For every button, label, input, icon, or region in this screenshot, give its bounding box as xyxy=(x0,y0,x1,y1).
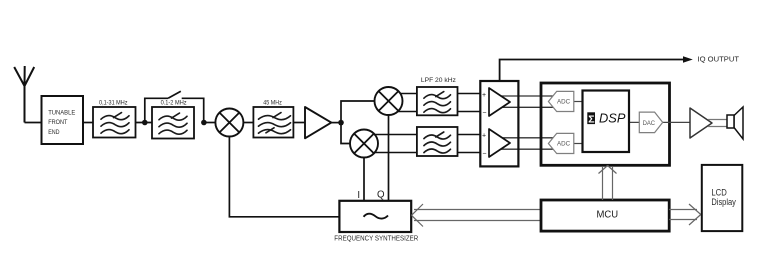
node branch junction dot xyxy=(338,120,344,126)
svg-text:Display: Display xyxy=(711,197,736,207)
svg-text:IQ OUTPUT: IQ OUTPUT xyxy=(698,55,740,64)
bypass switch SW1 wire xyxy=(145,91,204,122)
wire FL1 to FL2 xyxy=(136,122,153,124)
bus MCU to LCD xyxy=(669,204,701,225)
wire FL2 to mixer M1 xyxy=(204,122,216,124)
wire amp outputs to ADC1 xyxy=(495,96,556,107)
svg-text:−: − xyxy=(482,151,486,158)
audio amp A2 xyxy=(690,108,712,138)
speaker LS1 xyxy=(727,107,743,139)
LCD display block xyxy=(702,165,743,231)
svg-text:LPF 20 kHz: LPF 20 kHz xyxy=(421,77,457,84)
MCU block xyxy=(541,200,669,231)
bandpass filter FL1 0,1-31 MHz xyxy=(93,107,136,138)
wire DSP to DAC and audio amp xyxy=(629,121,690,123)
mixer M3 xyxy=(350,130,378,158)
bus MCU to SDR chip xyxy=(599,166,617,201)
wire antenna to tunable front end xyxy=(25,122,42,124)
bandpass filter FL2 0.1-2 MHz xyxy=(152,107,194,139)
wire IQ OUTPUT line xyxy=(500,60,683,82)
svg-text:ADC: ADC xyxy=(557,141,571,148)
wire ADC2 to DSP xyxy=(574,143,583,145)
op-amp U2 xyxy=(489,129,510,157)
wire mixer M1 LO from synthesizer xyxy=(229,137,339,217)
svg-text:END: END xyxy=(48,129,59,136)
svg-text:−: − xyxy=(482,110,486,117)
wire audio amp to speaker xyxy=(708,120,727,127)
mixer M2 xyxy=(375,87,403,115)
svg-text:+: + xyxy=(482,133,486,140)
wire amp outputs to ADC2 xyxy=(495,138,556,149)
svg-text:0,1-31 MHz: 0,1-31 MHz xyxy=(99,100,128,107)
wire FL3 to amplifier A1 xyxy=(293,122,305,124)
op-amp U1 xyxy=(489,88,510,116)
instrumentation amp box xyxy=(480,81,518,166)
wire mixer M2 outputs to LPF1 and amp box xyxy=(390,94,481,112)
wire branch to mixer M2 xyxy=(341,101,375,123)
wire A1 to IQ branch node xyxy=(331,122,341,124)
ADC1 xyxy=(548,91,573,111)
bus synthesizer to MCU xyxy=(412,204,542,227)
bandpass filter FL3 45 MHz xyxy=(253,107,293,138)
svg-text:TUNABLE: TUNABLE xyxy=(48,109,75,116)
svg-text:Q: Q xyxy=(377,190,385,201)
svg-text:Σ: Σ xyxy=(588,113,594,125)
wire ADC1 to DSP xyxy=(574,101,583,103)
DAC xyxy=(639,112,662,133)
wire mixer M2 LO Q line xyxy=(388,115,390,201)
node junction dot left of FL2 xyxy=(142,120,148,126)
svg-text:ADC: ADC xyxy=(557,99,571,106)
node junction dot right of FL2 xyxy=(201,120,207,126)
wire mixer M3 outputs to LPF2 and amp box xyxy=(366,135,481,153)
svg-text:DSP: DSP xyxy=(599,112,626,126)
svg-text:45 MHz: 45 MHz xyxy=(263,100,282,107)
amplifier A1 xyxy=(305,107,331,138)
svg-text:LCD: LCD xyxy=(711,188,726,198)
arrowhead IQ output xyxy=(683,56,693,63)
svg-text:DAC: DAC xyxy=(643,120,656,127)
SDR chip box xyxy=(541,83,670,165)
wire mixer M3 LO I line xyxy=(363,158,365,202)
wire mixer M1 to filter FL3 xyxy=(243,122,253,124)
wire front end to filter FL1 xyxy=(83,122,93,124)
svg-text:+: + xyxy=(482,92,486,99)
svg-text:I: I xyxy=(357,190,360,201)
ADC2 xyxy=(548,133,573,153)
mixer M1 xyxy=(215,109,243,137)
svg-text:FREQUENCY SYNTHESIZER: FREQUENCY SYNTHESIZER xyxy=(334,235,418,242)
svg-text:FRONT: FRONT xyxy=(48,119,67,126)
antenna ANT1 xyxy=(14,66,34,123)
svg-text:MCU: MCU xyxy=(597,210,619,221)
DSP block xyxy=(583,91,630,153)
tunable front end block xyxy=(42,96,84,144)
low pass filter LPF2 xyxy=(417,127,458,156)
low pass filter LPF1 20 kHz xyxy=(417,87,458,115)
frequency synthesizer block xyxy=(339,201,411,232)
wire branch to mixer M3 xyxy=(341,123,351,144)
svg-text:0.1-2 MHz: 0.1-2 MHz xyxy=(161,99,187,106)
